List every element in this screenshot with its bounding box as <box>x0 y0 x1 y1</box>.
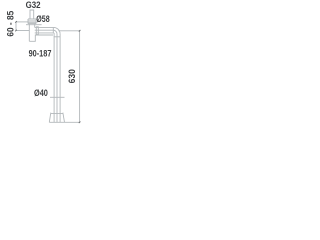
drop pipe left wall <box>53 34 55 122</box>
svg-text:G32: G32 <box>26 0 41 10</box>
elbow seam vertical <box>52 27 54 33</box>
trap body right wall <box>34 24 36 28</box>
svg-text:630: 630 <box>67 69 77 83</box>
drop pipe right wall <box>59 34 61 122</box>
floor line <box>49 121 80 123</box>
dimension 60-85 top extension <box>16 21 28 23</box>
elbow inner arc <box>52 33 55 34</box>
outlet collar nut <box>36 27 38 35</box>
dimension 60-85 bottom extension <box>16 30 29 32</box>
dimension 630 line <box>79 31 81 123</box>
compression nut <box>28 19 36 24</box>
floor bell right slant <box>63 113 65 122</box>
svg-text:90-187: 90-187 <box>29 49 52 59</box>
floor bell rim <box>51 112 63 115</box>
outlet pipe bottom wall <box>35 32 54 34</box>
svg-text:60 - 85: 60 - 85 <box>6 11 16 37</box>
floor bell left slant <box>49 113 50 122</box>
elbow bottom seam <box>54 36 60 38</box>
dimension diameter 58 line <box>26 24 42 26</box>
elbow outer arc <box>53 27 60 34</box>
tick 630 bottom <box>79 122 81 124</box>
dimension 60-85 line <box>15 22 17 31</box>
tick 60-85 top <box>15 21 17 23</box>
dimension 630 extension line <box>58 30 79 32</box>
dimension diameter 40 line <box>50 96 65 98</box>
tick 630 top <box>79 30 81 32</box>
outlet pipe mid line <box>35 29 54 31</box>
inlet thread tube G32 <box>30 10 34 19</box>
trap body left wall <box>28 24 30 42</box>
tick 60-85 bottom <box>15 30 17 32</box>
outlet pipe top wall <box>35 26 54 28</box>
svg-text:Ø40: Ø40 <box>34 88 48 98</box>
trap cup bottom <box>29 35 53 41</box>
elbow mid arc <box>53 30 57 34</box>
svg-text:Ø58: Ø58 <box>36 14 49 24</box>
drop pipe mid line <box>56 34 58 122</box>
